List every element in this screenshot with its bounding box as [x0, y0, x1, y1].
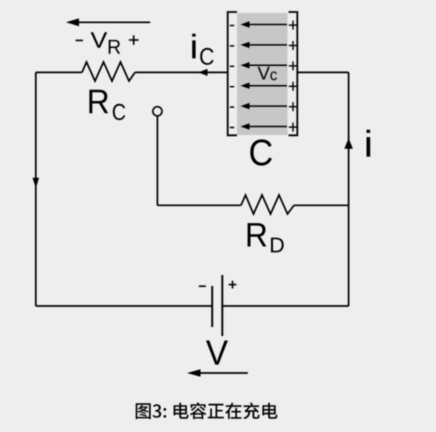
label C [250, 139, 272, 165]
minus charge on left plate [230, 106, 234, 108]
wire R_D to right wire [294, 204, 349, 206]
plus charge on right plate [289, 123, 297, 132]
label minus of v_R [76, 39, 83, 41]
wire R_C to capacitor [135, 71, 228, 73]
label i [367, 130, 371, 157]
reference arrow for v_R [66, 18, 150, 26]
label R_D [248, 223, 284, 252]
resistor R_D zigzag [241, 195, 294, 214]
minus charge on left plate [230, 86, 234, 88]
minus charge on left plate [230, 127, 234, 129]
wire bottom left to battery [36, 305, 212, 307]
plus charge on right plate [289, 61, 297, 70]
battery plus sign [229, 281, 237, 289]
label R_C [89, 90, 125, 120]
battery short plate (negative) [211, 286, 213, 327]
field arrow E [241, 62, 288, 68]
wire capacitor to right corner [297, 71, 348, 73]
minus charge on left plate [230, 25, 234, 27]
battery minus sign [199, 285, 206, 287]
current arrowhead (down) on left wire [33, 178, 40, 188]
caption 图3: 电容正在充电 [136, 402, 278, 419]
plus charge on right plate [289, 21, 297, 30]
field arrow E [241, 83, 288, 89]
label plus of v_R [129, 35, 139, 45]
field arrow E [241, 103, 288, 109]
label v_c [258, 67, 277, 81]
label V [206, 341, 228, 365]
plus charge on right plate [289, 82, 297, 91]
resistor R_C zigzag [82, 62, 135, 81]
wire to R_D [157, 204, 241, 206]
current arrowhead i_C on wire [198, 69, 207, 76]
battery long plate (positive) [221, 275, 223, 336]
capacitor C right plate [289, 12, 298, 135]
wire left vertical [35, 72, 37, 306]
node terminal (open circle) [153, 107, 162, 116]
reference arrow for V [187, 369, 248, 377]
plus charge on right plate [289, 102, 297, 111]
field arrow E [241, 21, 288, 27]
wire node down to R_D branch [156, 116, 158, 205]
current arrowhead i (up) [344, 138, 353, 149]
plus charge on right plate [289, 41, 297, 50]
wire bottom right from battery [222, 305, 348, 307]
minus charge on left plate [230, 45, 234, 47]
field arrow E [241, 42, 288, 48]
wire top horizontal (left corner to R_C) [36, 71, 82, 73]
field arrow E [241, 123, 288, 129]
label i_C [192, 34, 213, 65]
wire right vertical [348, 72, 350, 306]
label v_R [91, 32, 121, 54]
capacitor C left plate [228, 12, 237, 135]
capacitor C dielectric [237, 13, 288, 135]
minus charge on left plate [230, 65, 234, 67]
